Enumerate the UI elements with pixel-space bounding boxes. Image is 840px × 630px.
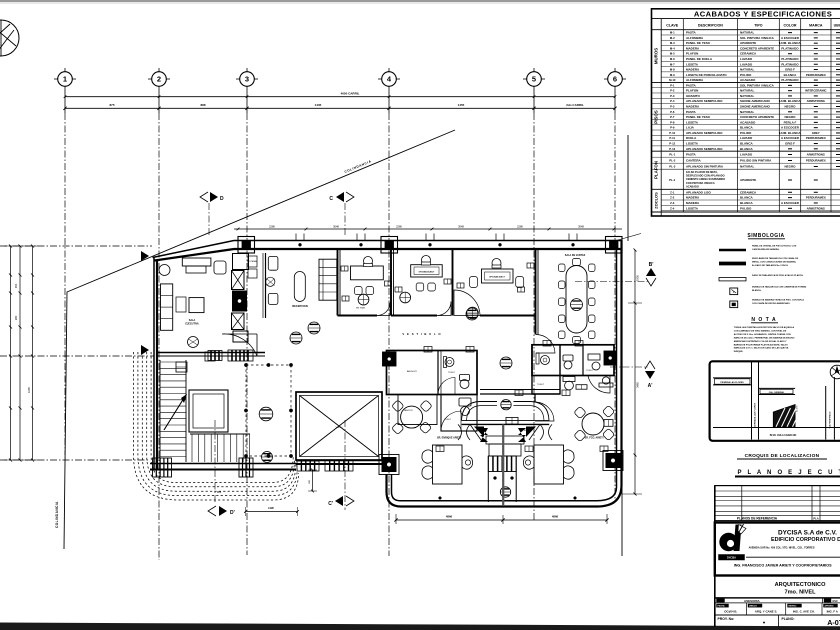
simbologia texts bbox=[752, 245, 807, 305]
svg-text:PASTA: PASTA bbox=[686, 110, 697, 114]
svg-text:CERAMICA: CERAMICA bbox=[740, 190, 757, 194]
core side walls bbox=[487, 456, 489, 502]
croquis right street bbox=[825, 386, 827, 440]
svg-text:M-8: M-8 bbox=[670, 68, 675, 72]
svg-text:NATURAL: NATURAL bbox=[740, 165, 754, 169]
svg-text:ARMSTRONG: ARMSTRONG bbox=[807, 153, 825, 157]
svg-text:PULIDO: PULIDO bbox=[740, 73, 752, 77]
svg-text:MUEBLE DE TABLAROCA CON CUBIER: MUEBLE DE TABLAROCA CON CUBIERTA DE FORM… bbox=[752, 286, 807, 289]
svg-text:CLAVE: CLAVE bbox=[666, 24, 679, 28]
desk left suite bbox=[433, 445, 463, 484]
svg-text:P-5: P-5 bbox=[670, 105, 675, 109]
simbologia symbol 3 bbox=[719, 278, 746, 281]
svg-text:M-10: M-10 bbox=[669, 78, 676, 82]
svg-text:APROBO:: APROBO: bbox=[825, 605, 835, 608]
svg-text:2286: 2286 bbox=[269, 224, 275, 228]
door leaf triangles bbox=[518, 428, 526, 442]
svg-text:BLANCA: BLANCA bbox=[740, 126, 753, 130]
conference chairs bbox=[559, 264, 566, 272]
central reception curved feature bbox=[462, 402, 550, 425]
svg-text:ZOCLOS: ZOCLOS bbox=[654, 192, 659, 209]
acabados table frame bbox=[652, 9, 840, 216]
svg-text:MURO BASE DE TABLAROCA CON CAN: MURO BASE DE TABLAROCA CON CANAL DE bbox=[752, 257, 799, 260]
svg-text:MUEBLE DE MADERA VISTAS DE PIS: MUEBLE DE MADERA VISTAS DE PISO, CON TAP… bbox=[752, 299, 804, 302]
svg-text:MADERA: MADERA bbox=[686, 68, 700, 72]
svg-text:HUM. BLANCA: HUM. BLANCA bbox=[779, 131, 801, 135]
partition wall x=452.5 bbox=[452, 249, 454, 316]
right boundary line lower bbox=[621, 485, 623, 556]
svg-text:Z-3: Z-3 bbox=[670, 201, 675, 205]
side table plant bbox=[266, 277, 275, 286]
svg-text:1435: 1435 bbox=[315, 103, 322, 107]
svg-text:MARCA: MARCA bbox=[809, 24, 823, 28]
svg-text:ACABADO: ACABADO bbox=[740, 78, 756, 82]
svg-text:CON LAMINADO DE VINIL MARMOL C: CON LAMINADO DE VINIL MARMOL CON NIVEL D… bbox=[734, 329, 787, 332]
colindancia boundary line bbox=[64, 130, 455, 549]
svg-text:PRIMERA LAS FLORES: PRIMERA LAS FLORES bbox=[720, 381, 744, 384]
planos de referencia table bbox=[715, 486, 840, 521]
stair flight bottom bbox=[190, 434, 250, 462]
armchair 2 bbox=[268, 293, 278, 304]
svg-text:CAL. GENERAL: CAL. GENERAL bbox=[769, 391, 785, 394]
vestibule south walls near suites bbox=[480, 389, 560, 391]
svg-text:ING. F A: ING. F A bbox=[827, 610, 839, 614]
logo sub text bbox=[719, 555, 745, 561]
arquitectonico box bbox=[715, 576, 840, 598]
svg-text:PERDURAMEX: PERDURAMEX bbox=[806, 73, 826, 77]
cabinet hatched 1 bbox=[208, 351, 222, 361]
dashed void rectangle bbox=[246, 365, 291, 456]
svg-text:LAVADO: LAVADO bbox=[740, 136, 753, 140]
svg-text:B': B' bbox=[649, 262, 654, 268]
svg-text:DESPLEGADO CON APLANADO: DESPLEGADO CON APLANADO bbox=[686, 175, 725, 178]
section marker D' (bottom) bbox=[208, 420, 235, 516]
column grid4 bbox=[381, 237, 398, 254]
svg-text:METAL, CON CONDUCCIONES DE MAD: METAL, CON CONDUCCIONES DE MADERA, bbox=[752, 260, 797, 263]
machine room bbox=[189, 390, 228, 432]
svg-text:P-1: P-1 bbox=[670, 83, 675, 87]
acabados header row bbox=[660, 19, 662, 216]
corridor cabinets hatched bbox=[297, 461, 319, 471]
grid line 3 bbox=[246, 86, 248, 113]
office1 person chair bbox=[364, 257, 373, 266]
svg-text:LAVADO: LAVADO bbox=[740, 62, 753, 66]
svg-text:CERAMICA: CERAMICA bbox=[740, 52, 757, 56]
svg-text:PLA: PLA bbox=[813, 517, 818, 521]
acabados data rows bbox=[652, 31, 840, 212]
grid line 5 bbox=[533, 86, 535, 113]
svg-text:M-7: M-7 bbox=[670, 62, 675, 66]
armchair 1 bbox=[268, 257, 278, 271]
svg-text:TOILET: TOILET bbox=[444, 419, 452, 421]
svg-text:CANCELERIA DE MADERA.: CANCELERIA DE MADERA. bbox=[752, 248, 780, 251]
column SE of X box bbox=[382, 458, 396, 472]
svg-text:UBIC: UBIC bbox=[834, 24, 840, 28]
section marker C (top) bbox=[329, 192, 354, 236]
svg-text:7mo. NIVEL: 7mo. NIVEL bbox=[784, 589, 816, 595]
svg-text:EDIFICIO CORPORATIVO DE: EDIFICIO CORPORATIVO DE bbox=[771, 537, 840, 543]
svg-text:APARENTE: APARENTE bbox=[740, 41, 756, 45]
svg-text:2286: 2286 bbox=[517, 224, 523, 228]
svg-text:NATURAL: NATURAL bbox=[740, 94, 754, 98]
svg-text:P-8: P-8 bbox=[670, 120, 675, 124]
svg-text:MADERA: MADERA bbox=[686, 196, 700, 200]
svg-text:EL.: EL. bbox=[524, 430, 528, 432]
shaft side boxes bbox=[248, 256, 257, 267]
sofa long bbox=[319, 259, 337, 300]
svg-text:D': D' bbox=[230, 510, 235, 516]
svg-text:3465: 3465 bbox=[636, 382, 640, 388]
wc closet right vestibule bbox=[563, 377, 575, 382]
svg-text:SISTEMA: SISTEMA bbox=[247, 260, 257, 263]
svg-text:ACCESO DE 2.10m. ACABADOS, JUN: ACCESO DE 2.10m. ACABADOS, JUNTAS CUATAS… bbox=[734, 333, 791, 336]
svg-text:SR. ENRIQUE ARIETI: SR. ENRIQUE ARIETI bbox=[437, 437, 461, 440]
svg-text:M-3: M-3 bbox=[670, 41, 675, 45]
round table right bbox=[582, 413, 604, 435]
conference door arc bbox=[536, 335, 555, 354]
svg-text:PASTA: PASTA bbox=[686, 31, 697, 35]
grid bubble 6 bbox=[604, 68, 626, 86]
svg-text:SOL PINTURA VINILICA: SOL PINTURA VINILICA bbox=[740, 83, 775, 87]
svg-text:TOILET: TOILET bbox=[537, 384, 545, 386]
svg-text:LAVADO: LAVADO bbox=[740, 153, 753, 157]
svg-text:LOSETA: LOSETA bbox=[686, 120, 699, 124]
column grid6 bbox=[606, 237, 623, 254]
svg-text:5: 5 bbox=[532, 75, 536, 84]
terrace dashed arcs bbox=[134, 352, 299, 500]
svg-text:MADERA: MADERA bbox=[686, 201, 700, 205]
parapet dimension line bbox=[234, 228, 622, 230]
svg-text:PULIDO: PULIDO bbox=[740, 131, 752, 135]
svg-text:EL.: EL. bbox=[481, 430, 485, 432]
svg-text:NATURAL: NATURAL bbox=[740, 110, 754, 114]
office3 person chair bbox=[492, 259, 501, 268]
office2 guest chairs bbox=[416, 283, 424, 291]
svg-text:DESCRIPCION: DESCRIPCION bbox=[698, 24, 723, 28]
croquis street vertical bbox=[751, 362, 753, 440]
svg-text:LAVADO: LAVADO bbox=[740, 57, 753, 61]
bottom wall with rounded corners bbox=[392, 474, 617, 501]
svg-text:PL-2: PL-2 bbox=[669, 159, 676, 163]
svg-text:PL-3: PL-3 bbox=[669, 165, 676, 169]
svg-text:PROY. No:: PROY. No: bbox=[718, 617, 735, 621]
svg-text:988: 988 bbox=[217, 490, 222, 494]
svg-text:INDIQUE.: INDIQUE. bbox=[734, 351, 744, 353]
svg-text:M-2: M-2 bbox=[670, 36, 675, 40]
svg-text:P-6: P-6 bbox=[670, 110, 675, 114]
svg-text:B= DADO DE TABLAROCA= CON EL: B= DADO DE TABLAROCA= CON EL bbox=[752, 264, 789, 267]
svg-text:VIA PERIFERICO: VIA PERIFERICO bbox=[829, 411, 832, 428]
cabinet hatched 2 bbox=[228, 350, 253, 361]
svg-text:3048: 3048 bbox=[458, 224, 464, 228]
building top wall bbox=[234, 240, 622, 242]
svg-text:2do CARRIL: 2do CARRIL bbox=[566, 103, 584, 107]
svg-text:PL-4: PL-4 bbox=[669, 178, 676, 182]
simbologia symbol 2 bbox=[719, 262, 746, 266]
elevator shaft boxes bbox=[232, 254, 249, 343]
floor symbol circles bbox=[308, 322, 320, 334]
svg-text:875: 875 bbox=[109, 103, 114, 107]
bottom wall dots bbox=[439, 497, 442, 500]
svg-text:1: 1 bbox=[63, 75, 67, 84]
svg-text:JANITOR: JANITOR bbox=[404, 409, 413, 412]
simbologia symbol 4 bbox=[730, 288, 738, 295]
partition wall x=391 bbox=[390, 249, 392, 316]
right boundary line upper bbox=[627, 135, 629, 241]
svg-text:SOL PINTURA VINILICA: SOL PINTURA VINILICA bbox=[740, 36, 775, 40]
svg-text:A ESCOGER: A ESCOGER bbox=[781, 201, 800, 205]
svg-text:HUM. BLANCA: HUM. BLANCA bbox=[779, 41, 801, 45]
svg-text:BLANCA: BLANCA bbox=[740, 201, 753, 205]
svg-text:TOILET: TOILET bbox=[586, 370, 594, 372]
top-left chamfer wall bbox=[153, 241, 235, 258]
svg-text:APLANADO LISO: APLANADO LISO bbox=[686, 190, 712, 194]
svg-text:AMERICANO ENTINTADO COLOR NOGA: AMERICANO ENTINTADO COLOR NOGAL CLARO Y bbox=[734, 340, 787, 343]
svg-text:PLAFON: PLAFON bbox=[654, 161, 659, 179]
svg-text:6: 6 bbox=[613, 75, 617, 84]
svg-text:PISOS: PISOS bbox=[654, 110, 659, 123]
svg-text:SIMBOLOGIA: SIMBOLOGIA bbox=[747, 233, 784, 239]
svg-text:1495: 1495 bbox=[268, 506, 274, 510]
executive square table bbox=[189, 298, 204, 313]
svg-text:A ESCOGER: A ESCOGER bbox=[781, 36, 800, 40]
svg-text:4050 CARRIL: 4050 CARRIL bbox=[341, 92, 360, 96]
svg-text:PLATINADO: PLATINADO bbox=[781, 46, 799, 50]
grid bubble 1 bbox=[54, 68, 76, 86]
wall boxes vestibule right bbox=[576, 385, 587, 390]
bottom sheet edge bar bbox=[0, 623, 840, 630]
svg-text:M-6: M-6 bbox=[670, 57, 675, 61]
right wall bbox=[616, 241, 618, 488]
section marker B' (right) bbox=[575, 262, 656, 286]
svg-text:A-07: A-07 bbox=[827, 618, 840, 627]
corridor south wall (center) bbox=[296, 460, 386, 462]
svg-text:PANEL DE YESO: PANEL DE YESO bbox=[686, 41, 711, 45]
north arrow symbol bbox=[0, 20, 19, 56]
svg-text:M-4: M-4 bbox=[670, 46, 675, 50]
svg-text:MARCA DE 2.07 m. SALVO EN CASO: MARCA DE 2.07 m. SALVO EN CASO DE LAS QU… bbox=[734, 347, 789, 350]
svg-text:P-4: P-4 bbox=[670, 99, 675, 103]
title block main box bbox=[715, 523, 840, 576]
wc left block bbox=[460, 375, 470, 381]
svg-text:CONCRETO APARENTE: CONCRETO APARENTE bbox=[740, 115, 774, 119]
toilet room below bbox=[441, 395, 477, 432]
svg-text:DADO DE TABLAROCA DE PISO A FA: DADO DE TABLAROCA DE PISO A FALSO PLAFON… bbox=[752, 274, 804, 277]
executive south wall bbox=[157, 352, 265, 354]
svg-text:REVISO:: REVISO: bbox=[789, 606, 798, 608]
svg-text:ARQ. Y CANE S.: ARQ. Y CANE S. bbox=[755, 610, 778, 614]
svg-text:HUM. BLANCA: HUM. BLANCA bbox=[779, 99, 801, 103]
svg-text:APLANADO SEMIPULIDO: APLANADO SEMIPULIDO bbox=[686, 99, 723, 103]
svg-text:PERDURAMEX: PERDURAMEX bbox=[806, 136, 826, 140]
svg-text:NEGRO: NEGRO bbox=[784, 105, 796, 109]
left dimension lines bbox=[4, 245, 38, 462]
svg-text:PLAFON: PLAFON bbox=[686, 89, 698, 93]
svg-text:BLVD. AVILA CAMACHO: BLVD. AVILA CAMACHO bbox=[770, 434, 797, 437]
info row 2 bbox=[715, 602, 840, 604]
office2 desk bbox=[411, 265, 443, 277]
stair block south wall bbox=[150, 463, 296, 465]
svg-text:DYCISA S.A de C.V.: DYCISA S.A de C.V. bbox=[778, 530, 837, 537]
svg-text:C: C bbox=[329, 196, 333, 202]
conference table oval bbox=[566, 266, 587, 334]
grid bubble 2 bbox=[148, 68, 170, 86]
svg-text:BLANCA: BLANCA bbox=[784, 73, 797, 77]
executive chair circle bbox=[159, 265, 170, 276]
door arcs toilet left bbox=[438, 378, 455, 395]
svg-text:350: 350 bbox=[14, 283, 18, 288]
svg-text:ALFOMBRA: ALFOMBRA bbox=[686, 36, 704, 40]
toilet block right walls bbox=[532, 345, 614, 376]
svg-text:A': A' bbox=[648, 383, 653, 389]
svg-text:MARCOS DE 2.40m. PERIMETRAL DE: MARCOS DE 2.40m. PERIMETRAL DE MADERA DE… bbox=[734, 336, 795, 339]
grid bubble 5 bbox=[523, 68, 545, 86]
svg-text:P-10: P-10 bbox=[669, 131, 675, 135]
section marker D (top) bbox=[200, 192, 224, 236]
janitor room left bbox=[398, 395, 437, 425]
svg-text:FECHA:: FECHA: bbox=[718, 605, 726, 608]
sink left block bbox=[445, 358, 454, 367]
svg-text:ING. C. AVE CH.: ING. C. AVE CH. bbox=[793, 610, 815, 614]
svg-text:P-12: P-12 bbox=[669, 142, 675, 146]
svg-text:EJECUTIVA: EJECUTIVA bbox=[185, 322, 199, 325]
svg-text:3048: 3048 bbox=[578, 224, 584, 228]
svg-text:3: 3 bbox=[245, 75, 249, 84]
svg-text:280: 280 bbox=[14, 315, 18, 320]
svg-text:PULIDO SIN PINTURA: PULIDO SIN PINTURA bbox=[740, 159, 772, 163]
svg-text:DIBUJO:: DIBUJO: bbox=[749, 606, 758, 608]
grid line 2 bbox=[158, 86, 160, 113]
svg-text:INTERCERAMIC: INTERCERAMIC bbox=[805, 89, 826, 93]
svg-text:P-2: P-2 bbox=[670, 89, 675, 93]
svg-text:LAJA: LAJA bbox=[686, 126, 695, 130]
door arc right suite bbox=[535, 402, 554, 421]
section marker A' (right) bbox=[610, 361, 655, 389]
svg-text:PLAFON: PLAFON bbox=[686, 52, 698, 56]
lavatory right vestibule bbox=[599, 383, 613, 387]
svg-text:P-11: P-11 bbox=[669, 136, 675, 140]
round table left bbox=[401, 406, 423, 428]
svg-text:Z-4: Z-4 bbox=[670, 206, 675, 210]
svg-text:Z-2: Z-2 bbox=[670, 196, 675, 200]
executive tall sofa bbox=[161, 284, 173, 330]
section marker C' (bottom) bbox=[328, 420, 354, 510]
svg-text:BLANCA.: BLANCA. bbox=[752, 289, 762, 292]
svg-text:PASTA: PASTA bbox=[686, 83, 697, 87]
column grid3 bbox=[238, 237, 255, 254]
croquis hatched building bbox=[773, 405, 801, 427]
svg-text:M-5: M-5 bbox=[670, 52, 675, 56]
svg-text:APLANADO SIN PINTURA: APLANADO SIN PINTURA bbox=[686, 165, 724, 169]
column toilet left bbox=[383, 352, 397, 366]
svg-text:FALSO PLAFON DE META,: FALSO PLAFON DE META, bbox=[686, 171, 718, 174]
svg-text:N O T A: N O T A bbox=[751, 317, 776, 323]
svg-text:ASESORIA: ASESORIA bbox=[744, 599, 761, 603]
wall dots top bbox=[299, 243, 302, 246]
svg-text:GRANITO: GRANITO bbox=[686, 94, 700, 98]
svg-text:SR. FCO. ARIETI: SR. FCO. ARIETI bbox=[585, 437, 604, 440]
office3 round symbol bbox=[467, 307, 479, 319]
acabados group labels bbox=[652, 81, 840, 83]
svg-text:ACABADO: ACABADO bbox=[686, 185, 699, 188]
montacargas X box bbox=[296, 392, 382, 460]
wall boxes (thermostats) bbox=[341, 266, 348, 271]
svg-text:LOSETA DE PORCELANATO: LOSETA DE PORCELANATO bbox=[686, 73, 727, 77]
dycisa logo bbox=[719, 524, 746, 551]
desk right suite bbox=[534, 445, 564, 484]
svg-text:CANTERA: CANTERA bbox=[686, 159, 701, 163]
partition wall x=337.5 bbox=[337, 249, 339, 316]
svg-text:ARQUITECTONICO: ARQUITECTONICO bbox=[775, 582, 827, 588]
svg-text:BARNIZ DE POLIFORMAS PLASTICAS: BARNIZ DE POLIFORMAS PLASTICAS MATE, SAL… bbox=[734, 343, 788, 346]
partition wall conference x=535.5 bbox=[535, 250, 537, 335]
svg-text:COLINDANCIA: COLINDANCIA bbox=[55, 501, 59, 528]
svg-text:NATURAL: NATURAL bbox=[740, 89, 754, 93]
svg-text:PLANO:: PLANO: bbox=[782, 617, 795, 621]
fixtures right block bbox=[541, 356, 550, 365]
svg-text:V E S T I B U L O: V E S T I B U L O bbox=[402, 332, 441, 336]
croquis box bbox=[710, 361, 840, 441]
svg-text:OFICINAS EJECT: OFICINAS EJECT bbox=[419, 270, 435, 273]
simbologia symbol 1 bbox=[719, 249, 746, 252]
title block left border bbox=[714, 486, 716, 627]
left wall bbox=[153, 258, 155, 471]
svg-text:4866: 4866 bbox=[446, 515, 453, 519]
svg-text:LOSETA: LOSETA bbox=[686, 142, 699, 146]
offices south wall segments bbox=[338, 315, 378, 317]
executive plant bbox=[188, 337, 199, 348]
svg-text:GREY: GREY bbox=[812, 131, 820, 135]
svg-text:LOSETA: LOSETA bbox=[686, 62, 699, 66]
svg-text:PASTA: PASTA bbox=[686, 153, 697, 157]
section marker B (left) bbox=[141, 251, 149, 261]
svg-text:ARMSTRONG: ARMSTRONG bbox=[807, 206, 825, 210]
svg-text:OCt/04 B.: OCt/04 B. bbox=[724, 610, 737, 614]
svg-text:3048: 3048 bbox=[333, 224, 339, 228]
svg-text:NATURAL: NATURAL bbox=[740, 31, 754, 35]
svg-text:NEGRO: NEGRO bbox=[784, 165, 796, 169]
lobby door arc big bbox=[222, 334, 257, 356]
central shaft line bbox=[502, 424, 504, 506]
office door arcs bbox=[377, 303, 390, 316]
svg-text:SALA DE JUNTAS: SALA DE JUNTAS bbox=[565, 254, 586, 257]
svg-text:AVENIDA SUR No. 456 COL. 5TO.: AVENIDA SUR No. 456 COL. 5TO. NIVEL, COL… bbox=[749, 547, 815, 550]
svg-text:APLANADO SEMIPULIDO: APLANADO SEMIPULIDO bbox=[686, 131, 723, 135]
svg-text:NATURAL: NATURAL bbox=[740, 68, 754, 72]
svg-text:ARCHIVO: ARCHIVO bbox=[407, 370, 417, 373]
svg-text:CEMENTO ARENA SUSPENDIDO: CEMENTO ARENA SUSPENDIDO bbox=[686, 178, 725, 181]
croquis compass bbox=[830, 365, 840, 379]
svg-text:TODAS LAS PUERTAS A EXCEPCION: TODAS LAS PUERTAS A EXCEPCION SALVO DE A… bbox=[734, 326, 795, 329]
svg-text:CROQUIS DE LOCALIZACION: CROQUIS DE LOCALIZACION bbox=[745, 453, 820, 459]
door arc at right wall bbox=[588, 376, 610, 393]
svg-text:RECEPCION: RECEPCION bbox=[292, 304, 308, 308]
svg-text:ACABADOS Y ESPECIFICACIONES: ACABADOS Y ESPECIFICACIONES bbox=[694, 9, 832, 18]
rug oval bbox=[294, 272, 305, 302]
central hatched steps bbox=[488, 456, 516, 472]
grid line 6 bbox=[614, 86, 616, 113]
office2 person chair bbox=[422, 256, 431, 265]
svg-text:LOSETA: LOSETA bbox=[686, 206, 699, 210]
column toilet right bbox=[604, 351, 617, 365]
svg-text:PLATINADO: PLATINADO bbox=[781, 78, 799, 82]
stair flight left bbox=[160, 360, 187, 462]
svg-text:DYCISA: DYCISA bbox=[727, 557, 736, 560]
svg-text:BLANCA: BLANCA bbox=[740, 142, 753, 146]
svg-text:VACIO: VACIO bbox=[336, 426, 343, 429]
svg-text:PERDURAMEX: PERDURAMEX bbox=[806, 196, 826, 200]
svg-text:2: 2 bbox=[157, 75, 161, 84]
